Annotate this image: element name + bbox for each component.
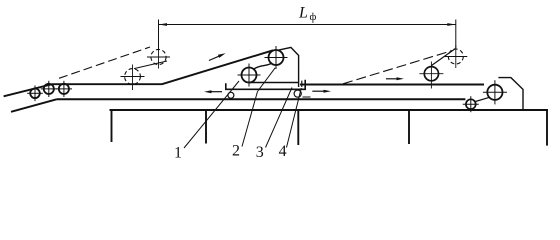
svg-text:1: 1 — [174, 145, 182, 162]
svg-text:4: 4 — [279, 143, 287, 160]
svg-text:3: 3 — [256, 144, 264, 161]
svg-text:ф: ф — [310, 12, 317, 23]
svg-text:2: 2 — [232, 143, 240, 160]
svg-text:L: L — [298, 5, 308, 22]
